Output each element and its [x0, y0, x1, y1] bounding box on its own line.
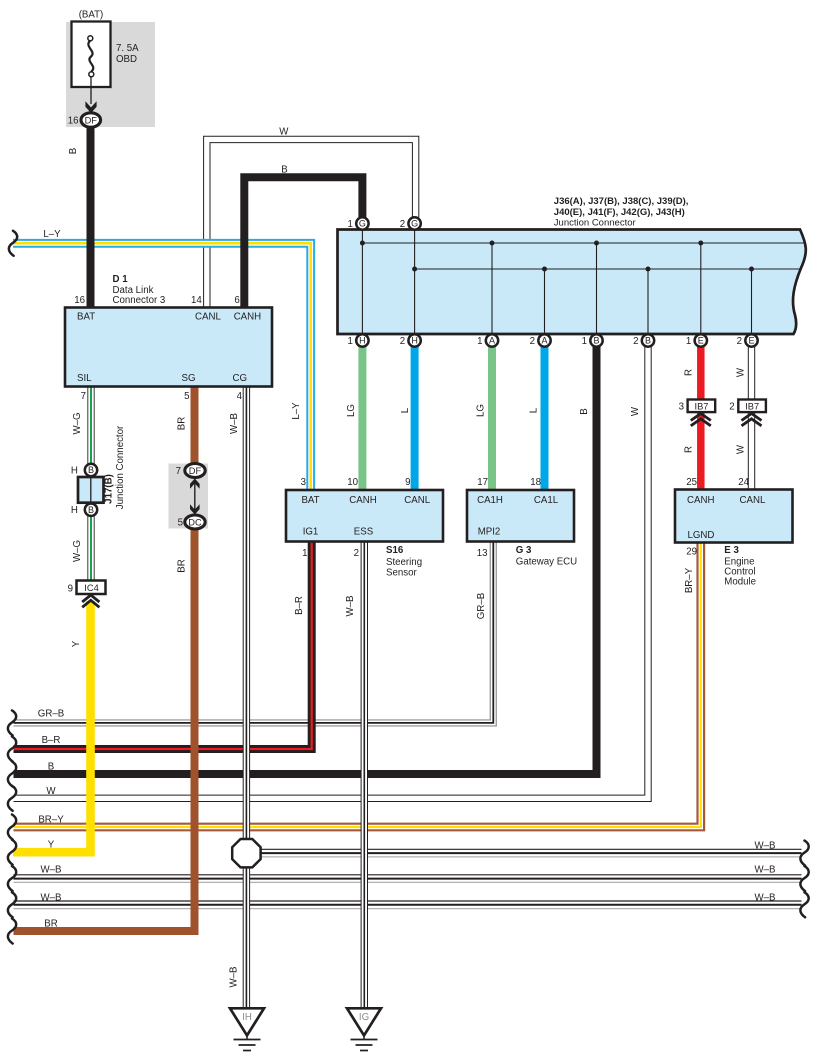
svg-text:H: H [71, 505, 78, 516]
svg-text:Gateway ECU: Gateway ECU [516, 557, 577, 568]
svg-text:IB7: IB7 [745, 401, 759, 411]
svg-text:10: 10 [347, 477, 358, 488]
svg-text:CANL: CANL [404, 495, 430, 506]
svg-text:9: 9 [68, 583, 73, 594]
svg-text:16: 16 [74, 295, 85, 306]
svg-text:1: 1 [477, 336, 482, 347]
svg-text:J17(B): J17(B) [104, 474, 115, 504]
svg-text:BR–Y: BR–Y [38, 815, 64, 826]
svg-text:CA1L: CA1L [534, 495, 559, 506]
svg-text:S16: S16 [386, 545, 404, 556]
svg-text:L: L [400, 407, 411, 413]
svg-text:E: E [698, 336, 704, 346]
svg-text:W: W [46, 786, 56, 797]
svg-text:B: B [88, 505, 94, 515]
svg-text:(BAT): (BAT) [79, 10, 104, 21]
svg-text:DF: DF [189, 466, 202, 476]
svg-text:B: B [645, 336, 651, 346]
svg-text:W–B: W–B [229, 967, 240, 988]
svg-text:IG: IG [359, 1012, 369, 1023]
svg-text:W–B: W–B [345, 596, 356, 617]
svg-text:BR: BR [44, 919, 57, 930]
svg-text:SIL: SIL [77, 373, 92, 384]
svg-text:17: 17 [477, 477, 488, 488]
svg-text:7: 7 [176, 466, 181, 477]
svg-text:OBD: OBD [116, 54, 137, 65]
svg-text:H: H [71, 466, 78, 477]
svg-text:3: 3 [301, 477, 306, 488]
svg-text:B: B [579, 408, 590, 414]
svg-text:7. 5A: 7. 5A [116, 43, 139, 54]
svg-text:Steering: Steering [386, 557, 422, 568]
svg-text:DC: DC [188, 517, 202, 527]
svg-text:W–G: W–G [72, 540, 83, 562]
svg-text:29: 29 [686, 547, 697, 558]
svg-text:E 3: E 3 [724, 545, 739, 556]
svg-text:IC4: IC4 [84, 583, 98, 593]
svg-text:24: 24 [738, 477, 749, 488]
svg-text:W–G: W–G [72, 412, 83, 434]
svg-text:CANH: CANH [349, 495, 376, 506]
svg-text:MPI2: MPI2 [478, 527, 501, 538]
svg-text:18: 18 [530, 477, 541, 488]
svg-text:CANL: CANL [740, 495, 766, 506]
svg-text:BAT: BAT [301, 495, 319, 506]
svg-text:1: 1 [582, 336, 587, 347]
svg-text:5: 5 [184, 391, 189, 402]
svg-text:3: 3 [679, 401, 684, 412]
svg-text:Y: Y [71, 640, 82, 647]
svg-text:W: W [279, 127, 289, 138]
svg-text:DF: DF [85, 115, 98, 125]
svg-text:Connector 3: Connector 3 [113, 295, 166, 306]
svg-text:4: 4 [237, 391, 243, 402]
svg-text:Y: Y [48, 840, 55, 851]
svg-text:A: A [489, 336, 495, 346]
svg-text:B: B [281, 165, 287, 176]
svg-text:CANL: CANL [195, 312, 221, 323]
svg-text:2: 2 [530, 336, 535, 347]
svg-text:R: R [684, 369, 695, 376]
svg-text:IH: IH [242, 1012, 252, 1023]
svg-text:Junction Connector: Junction Connector [554, 218, 636, 229]
svg-text:BR: BR [177, 417, 188, 430]
svg-text:9: 9 [405, 477, 410, 488]
svg-text:H: H [359, 336, 366, 346]
svg-text:ESS: ESS [354, 527, 374, 538]
svg-text:13: 13 [477, 548, 488, 559]
svg-text:2: 2 [354, 548, 359, 559]
svg-text:SG: SG [182, 373, 196, 384]
svg-text:LG: LG [346, 404, 357, 417]
svg-text:B: B [593, 336, 599, 346]
svg-text:W–B: W–B [755, 865, 776, 876]
svg-text:CANH: CANH [687, 495, 714, 506]
svg-text:A: A [541, 336, 547, 346]
svg-text:D 1: D 1 [113, 274, 129, 285]
svg-text:L–Y: L–Y [43, 229, 61, 240]
svg-text:1: 1 [686, 336, 691, 347]
svg-text:W–B: W–B [41, 893, 62, 904]
svg-text:Junction Connector: Junction Connector [115, 425, 126, 509]
svg-text:CG: CG [233, 373, 248, 384]
svg-text:J40(E), J41(F), J42(G), J43(H): J40(E), J41(F), J42(G), J43(H) [554, 207, 685, 218]
svg-text:L–Y: L–Y [291, 402, 302, 420]
svg-text:H: H [411, 336, 418, 346]
svg-text:BR–Y: BR–Y [684, 567, 695, 593]
svg-text:1: 1 [302, 548, 307, 559]
svg-text:5: 5 [178, 518, 183, 529]
svg-text:BR: BR [177, 559, 188, 572]
svg-text:1: 1 [348, 219, 353, 230]
svg-text:LGND: LGND [688, 530, 715, 541]
svg-text:CANH: CANH [234, 312, 261, 323]
svg-text:GR–B: GR–B [476, 593, 487, 619]
svg-text:2: 2 [400, 336, 405, 347]
svg-text:Sensor: Sensor [386, 568, 417, 579]
svg-text:G 3: G 3 [516, 545, 532, 556]
svg-text:IB7: IB7 [695, 401, 709, 411]
svg-text:B: B [48, 762, 54, 773]
svg-text:GR–B: GR–B [38, 709, 64, 720]
svg-text:BAT: BAT [77, 312, 95, 323]
svg-text:W: W [736, 367, 747, 377]
svg-text:6: 6 [234, 295, 239, 306]
svg-text:J36(A), J37(B), J38(C), J39(D): J36(A), J37(B), J38(C), J39(D), [554, 196, 689, 207]
svg-text:R: R [684, 446, 695, 453]
svg-text:B–R: B–R [294, 596, 305, 615]
svg-text:LG: LG [476, 404, 487, 417]
svg-text:14: 14 [191, 295, 202, 306]
svg-text:1: 1 [348, 336, 353, 347]
svg-text:W: W [736, 444, 747, 454]
svg-text:W–B: W–B [41, 865, 62, 876]
svg-text:7: 7 [81, 391, 86, 402]
svg-text:IG1: IG1 [303, 527, 319, 538]
svg-text:CA1H: CA1H [477, 495, 503, 506]
svg-text:2: 2 [400, 219, 405, 230]
svg-text:B–R: B–R [42, 735, 61, 746]
svg-text:Module: Module [724, 577, 756, 588]
svg-text:B: B [88, 465, 94, 475]
svg-text:E: E [748, 336, 754, 346]
svg-text:W: W [630, 406, 641, 416]
svg-text:G: G [359, 219, 366, 229]
svg-text:W–B: W–B [229, 413, 240, 434]
svg-text:L: L [529, 407, 540, 413]
svg-text:25: 25 [686, 477, 697, 488]
svg-text:W–B: W–B [755, 841, 776, 852]
svg-text:2: 2 [737, 336, 742, 347]
svg-text:B: B [68, 148, 79, 154]
svg-text:W–B: W–B [755, 893, 776, 904]
svg-text:16: 16 [68, 116, 79, 127]
svg-text:G: G [411, 219, 418, 229]
svg-text:2: 2 [633, 336, 638, 347]
svg-text:2: 2 [729, 401, 734, 412]
